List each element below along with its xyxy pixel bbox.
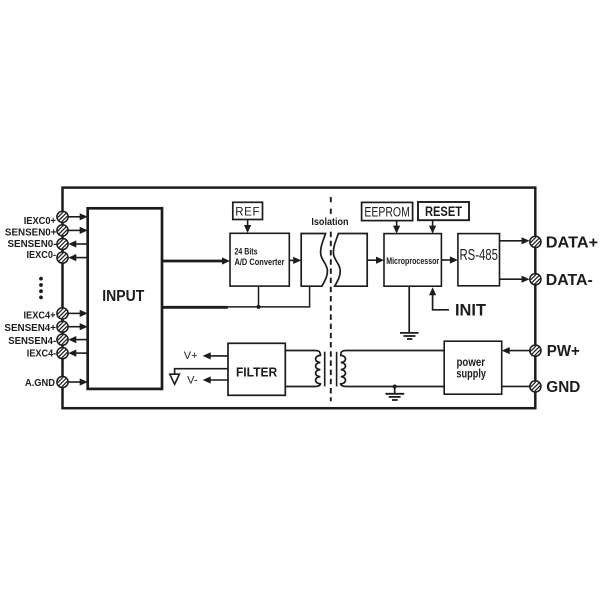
svg-text:FILTER: FILTER [236, 365, 278, 380]
wire IEXC4- arrow [68, 350, 87, 357]
svg-text:IEXC0+: IEXC0+ [24, 215, 56, 227]
terminal IEXC4- [27, 348, 68, 360]
terminal PW+ [530, 343, 580, 360]
wire INPUT lower to junction (thick) [162, 306, 228, 309]
terminal DATA- [530, 272, 593, 289]
svg-text:SENSEN0-: SENSEN0- [8, 238, 57, 250]
svg-text:A.GND: A.GND [25, 377, 55, 389]
block REF [233, 202, 263, 219]
wire micro to RS-485 arrow [441, 256, 458, 263]
isolation barrier right shape [333, 234, 367, 287]
svg-text:A/D Converter: A/D Converter [235, 257, 285, 267]
wire IEXC4+ arrow [68, 310, 88, 317]
svg-text:supply: supply [456, 366, 486, 380]
svg-text:Microprocessor: Microprocessor [386, 256, 439, 266]
wire FILTER to analog ground [175, 369, 228, 374]
terminal IEXC0- [27, 249, 69, 263]
wire SENSEN4+ arrow [68, 323, 88, 330]
svg-text:EEPROM: EEPROM [364, 204, 410, 219]
wire RESET to micro arrow [429, 220, 436, 233]
isolation dashed line lower [330, 232, 332, 402]
svg-text:INIT: INIT [455, 301, 486, 319]
wire V+ arrow [203, 352, 228, 359]
junction dot [257, 305, 261, 309]
wire INIT arrow [429, 287, 449, 310]
wire IEXC0+ arrow [68, 213, 88, 220]
svg-text:V+: V+ [184, 350, 198, 362]
svg-text:IEXC4-: IEXC4- [27, 348, 57, 360]
block RESET [418, 202, 469, 220]
wire GND to power supply [502, 385, 530, 387]
wire EEPROM to micro arrow [393, 221, 400, 234]
block RS-485 [458, 234, 500, 286]
transformer primary winding [285, 351, 320, 387]
wire ADC to isolation arrow [289, 257, 301, 264]
wire RS-485 to DATA+ arrow [500, 237, 530, 244]
terminal SENSEN0+ [5, 225, 68, 239]
wire SENSEN0- arrow [68, 240, 87, 247]
wire A.GND arrow [68, 378, 88, 385]
svg-text:V-: V- [187, 374, 198, 386]
block EEPROM [362, 202, 413, 220]
wire V- arrow [203, 376, 228, 383]
wire REF to ADC arrow [244, 220, 251, 234]
junction dot power ground [393, 385, 397, 389]
wire SENSEN4- arrow [68, 336, 87, 343]
wire isolation to microprocessor arrow [367, 257, 384, 264]
svg-text:SENSEN4-: SENSEN4- [8, 335, 56, 347]
transformer secondary winding [341, 351, 445, 387]
ellipsis dots [39, 277, 43, 300]
block Microprocessor [384, 234, 441, 287]
wire IEXC0- arrow [68, 254, 87, 261]
terminal SENSEN0- [8, 238, 69, 250]
svg-text:SENSEN0+: SENSEN0+ [5, 227, 57, 239]
block ADC 24 Bits A/D Converter [230, 233, 289, 286]
transformer core lines [324, 352, 326, 387]
terminal SENSEN4- [8, 334, 68, 347]
terminal IEXC0+ [24, 211, 68, 227]
svg-text:GND: GND [546, 379, 580, 396]
terminal IEXC4+ [24, 308, 69, 322]
svg-text:PW+: PW+ [547, 343, 580, 360]
outer frame [63, 188, 536, 409]
analog ground triangle [170, 374, 180, 384]
terminal DATA+ [530, 235, 598, 252]
svg-text:IEXC4+: IEXC4+ [24, 309, 56, 321]
wire SENSEN0+ arrow [68, 227, 88, 234]
svg-text:24 Bits: 24 Bits [235, 247, 258, 257]
block power supply [444, 341, 502, 394]
ground micro [400, 286, 419, 339]
svg-text:RESET: RESET [425, 204, 463, 219]
svg-text:DATA+: DATA+ [546, 235, 598, 252]
block INPUT [88, 208, 162, 389]
wire ADC bottom to isolation bottom [228, 286, 310, 307]
svg-text:Isolation: Isolation [311, 217, 348, 228]
svg-text:IEXC0-: IEXC0- [27, 249, 57, 261]
isolation barrier left shape [301, 234, 327, 287]
svg-text:RS-485: RS-485 [459, 247, 498, 264]
ground power [385, 387, 404, 401]
isolation dashed line upper [330, 197, 332, 214]
terminal GND [530, 379, 580, 396]
wire RS-485 to DATA- arrow [500, 276, 530, 283]
svg-text:SENSEN4+: SENSEN4+ [4, 322, 56, 334]
svg-text:DATA-: DATA- [546, 272, 593, 289]
terminal A.GND [25, 376, 68, 389]
svg-text:INPUT: INPUT [102, 288, 144, 305]
wire INPUT to ADC [162, 257, 230, 264]
svg-text:REF: REF [235, 206, 260, 218]
wire PW+ to power supply arrow [502, 347, 530, 354]
block FILTER [228, 343, 285, 395]
terminal SENSEN4+ [4, 321, 68, 334]
